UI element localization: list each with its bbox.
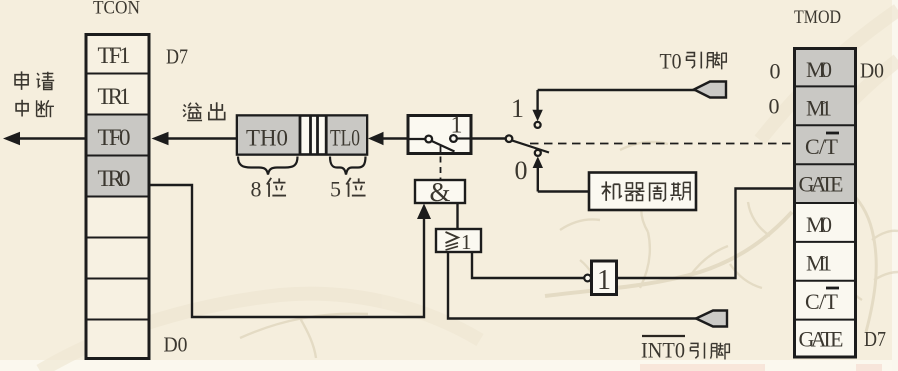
wire overflow arrow TH0 to TCON (152, 132, 238, 145)
wire OR right input from inverter (472, 252, 584, 278)
label 8位 (8 bits) (251, 177, 287, 202)
svg-text:D7: D7 (166, 45, 188, 69)
label 申请中断 (interrupt request) (15, 71, 54, 117)
svg-text:5: 5 (330, 177, 341, 202)
switch S1 (counter/timer select) (408, 113, 471, 154)
label D0 (TMOD) (860, 59, 884, 83)
pin INT0 connector (696, 311, 727, 327)
pin T0 connector (694, 82, 726, 98)
OR gate (436, 229, 481, 254)
register TCON (86, 35, 149, 359)
brace under TL0 (330, 157, 366, 175)
label D0 (TCON) (164, 333, 188, 357)
register TH0/TL0 (237, 115, 367, 155)
label D7 (TCON) (166, 45, 188, 69)
register TMOD (795, 49, 856, 358)
svg-text:1: 1 (511, 94, 524, 123)
label 0 (M0 preset) (770, 59, 781, 84)
svg-text:M1: M1 (806, 251, 832, 276)
svg-text:0: 0 (770, 59, 781, 84)
wire dashed control S1 (440, 146, 442, 180)
wire interrupt request arrow (3, 132, 86, 145)
wire GATE to inverter (617, 189, 794, 279)
svg-text:M0: M0 (806, 57, 832, 82)
svg-text:D7: D7 (864, 327, 886, 351)
svg-text:TL0: TL0 (330, 126, 360, 151)
wire T0 pin to contact 1 (538, 89, 695, 91)
label 1 contact (511, 94, 524, 123)
svg-text:M1: M1 (806, 96, 832, 121)
brace under TH0 (238, 157, 298, 175)
arrowhead into AND (417, 204, 431, 220)
wire machine cycle to contact 0 (538, 190, 589, 192)
svg-text:0: 0 (515, 156, 528, 185)
svg-text:0: 0 (769, 94, 780, 119)
svg-text:TF0: TF0 (98, 125, 131, 150)
box 机器周期 (machine cycle) (589, 173, 696, 211)
wire INT0 to OR gate (448, 252, 696, 319)
svg-text:T0: T0 (660, 49, 682, 74)
label T0引脚 (T0 pin) (660, 49, 727, 74)
AND gate (415, 177, 465, 207)
svg-text:&: & (429, 177, 450, 207)
wire switch1 to TL0 arrow (368, 132, 407, 145)
svg-text:TF1: TF1 (98, 43, 131, 68)
wire TR0 to AND gate (149, 185, 424, 317)
label D7 (TMOD) (864, 327, 886, 351)
svg-text:C/T: C/T (805, 289, 839, 314)
svg-text:1: 1 (597, 265, 611, 296)
label 5位 (5 bits) (330, 177, 366, 202)
contact 1 of S2 (532, 90, 542, 128)
svg-text:TH0: TH0 (246, 126, 288, 151)
inverter U1 (GATE NOT) (584, 261, 616, 296)
svg-text:TMOD: TMOD (794, 7, 841, 28)
label 溢出 (overflow) (183, 102, 225, 120)
bottom edge artifacts (640, 364, 882, 371)
label 0 contact (515, 156, 528, 185)
register TMOD label (794, 7, 841, 28)
svg-text:TCON: TCON (93, 0, 140, 19)
label INT0引脚 (INT0 pin) with overbar (641, 336, 729, 363)
svg-text:C/T: C/T (805, 134, 839, 159)
svg-text:1: 1 (461, 230, 472, 254)
svg-text:TR1: TR1 (98, 84, 131, 109)
wire AND to OR (456, 203, 458, 229)
svg-text:GATE: GATE (799, 327, 844, 352)
label 0 (M1 preset) (769, 94, 780, 119)
svg-text:GATE: GATE (799, 172, 844, 197)
svg-text:D0: D0 (164, 333, 188, 357)
svg-text:8: 8 (251, 177, 262, 202)
contact 0 of S2 (533, 150, 543, 192)
svg-text:D0: D0 (860, 59, 884, 83)
register TCON label (93, 0, 140, 19)
svg-text:TR0: TR0 (98, 166, 131, 191)
wire dashed to C/T bit (530, 143, 792, 145)
svg-text:M0: M0 (806, 212, 832, 237)
switch S2 (gating) pivot (471, 135, 549, 152)
svg-text:INT0: INT0 (641, 338, 685, 363)
